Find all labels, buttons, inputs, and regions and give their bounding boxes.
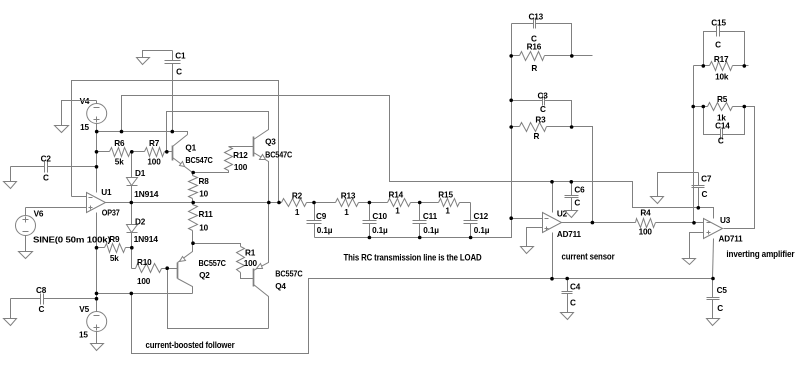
svg-text:1N914: 1N914 bbox=[134, 190, 159, 199]
node U2 V+ tap bbox=[550, 180, 554, 184]
svg-text:R: R bbox=[531, 64, 537, 73]
op-amp U1 OP37 bbox=[72, 196, 87, 198]
svg-text:R13: R13 bbox=[341, 192, 356, 201]
wire U2 feedback column bbox=[572, 127, 593, 223]
capacitor C9 0.1u bbox=[314, 203, 316, 221]
svg-text:10: 10 bbox=[199, 224, 208, 233]
svg-text:BC547C: BC547C bbox=[265, 150, 292, 159]
ground at C4 bbox=[561, 313, 574, 320]
svg-text:0.1µ: 0.1µ bbox=[372, 226, 388, 235]
svg-text:1: 1 bbox=[395, 207, 400, 216]
node R2/C9 bbox=[312, 201, 316, 205]
node Q1 emitter/R8/R12 bbox=[191, 171, 195, 175]
wire U3 output up to feedback rows bbox=[724, 107, 755, 229]
capacitor C1 bbox=[172, 51, 174, 61]
svg-text:C12: C12 bbox=[474, 212, 489, 221]
node +15 riser bbox=[120, 130, 124, 134]
op-amp U3 AD711 bbox=[704, 219, 723, 239]
capacitor C12 0.1u bbox=[470, 203, 472, 221]
svg-text:BC547C: BC547C bbox=[185, 156, 213, 165]
transistor Q4 BC557C bbox=[253, 269, 255, 287]
svg-text:R2: R2 bbox=[292, 192, 303, 201]
wire U1 output row / RC line top row bbox=[106, 202, 282, 204]
svg-text:R17: R17 bbox=[714, 55, 729, 64]
svg-text:C: C bbox=[39, 305, 45, 314]
svg-text:10k: 10k bbox=[715, 73, 729, 82]
wire U3 V- pin bbox=[713, 239, 714, 279]
capacitor C3 bbox=[512, 100, 543, 102]
resistor R13 bbox=[315, 202, 336, 204]
svg-text:R3: R3 bbox=[535, 116, 546, 125]
node -15 rail bbox=[95, 292, 99, 296]
svg-text:100: 100 bbox=[147, 158, 161, 167]
wire U1 feedback: -in column up, top line, drop to output node bbox=[72, 81, 279, 203]
svg-text:C: C bbox=[540, 105, 546, 114]
svg-text:This RC transmission line is t: This RC transmission line is the LOAD bbox=[344, 252, 483, 262]
resistor R14 bbox=[370, 202, 388, 204]
svg-text:C: C bbox=[715, 41, 721, 50]
svg-text:U1: U1 bbox=[101, 188, 112, 197]
wire Q2 base node down to Q4 collector bbox=[168, 269, 269, 329]
ground at C6 bbox=[565, 211, 578, 218]
capacitor C15 bbox=[704, 32, 717, 66]
node -15 branch down bbox=[130, 292, 134, 296]
ground at C2 bbox=[10, 167, 12, 182]
resistor R17 10k bbox=[694, 65, 710, 67]
node U3 -in bbox=[692, 221, 696, 225]
svg-text:100: 100 bbox=[137, 277, 151, 286]
svg-text:100: 100 bbox=[244, 259, 258, 268]
svg-text:C: C bbox=[176, 67, 182, 76]
capacitor C14 bbox=[704, 107, 721, 135]
node C1 rail bbox=[171, 130, 175, 134]
wire U2 +in to ground bbox=[527, 228, 543, 247]
svg-text:V4: V4 bbox=[80, 97, 90, 106]
node follower out R8/R11 bbox=[191, 201, 195, 205]
node R17 right bbox=[743, 64, 747, 68]
wire inner box Q1 base to Q3 collector bbox=[167, 112, 269, 152]
svg-text:R12: R12 bbox=[233, 151, 248, 160]
svg-text:Q2: Q2 bbox=[199, 271, 210, 280]
svg-text:C: C bbox=[574, 198, 580, 207]
svg-text:R5: R5 bbox=[717, 95, 728, 104]
node C12 bottom bbox=[469, 236, 473, 240]
node C6 top bbox=[570, 180, 574, 184]
svg-text:C14: C14 bbox=[715, 122, 730, 131]
wire U2 V- pin bbox=[552, 233, 554, 279]
resistor R3 bbox=[512, 126, 520, 128]
svg-text:C15: C15 bbox=[711, 19, 726, 28]
svg-text:0.1µ: 0.1µ bbox=[474, 226, 490, 235]
resistor R6 bbox=[97, 151, 110, 153]
svg-text:5k: 5k bbox=[115, 158, 124, 167]
svg-text:100: 100 bbox=[639, 228, 653, 237]
node C7 bottom bbox=[697, 206, 701, 210]
node C15 left bbox=[702, 64, 706, 68]
svg-text:BC557C: BC557C bbox=[199, 259, 227, 268]
ground at V6 bbox=[25, 236, 27, 252]
svg-text:C9: C9 bbox=[316, 212, 327, 221]
node R16 right bbox=[570, 54, 574, 58]
capacitor C4 bbox=[567, 279, 569, 292]
svg-text:R10: R10 bbox=[137, 258, 152, 267]
node C11 bottom bbox=[418, 236, 422, 240]
resistor R2 bbox=[282, 199, 307, 207]
svg-text:R6: R6 bbox=[114, 139, 125, 148]
svg-text:D1: D1 bbox=[135, 169, 146, 178]
svg-text:R1: R1 bbox=[245, 249, 256, 258]
voltage source V5 bbox=[87, 312, 107, 332]
svg-text:BC557C: BC557C bbox=[275, 270, 303, 279]
svg-text:C1: C1 bbox=[175, 51, 186, 60]
svg-text:C13: C13 bbox=[529, 13, 544, 22]
node U1 out / D1-D2 bbox=[130, 201, 134, 205]
svg-text:current-boosted follower: current-boosted follower bbox=[146, 340, 236, 350]
ground at V4 bbox=[62, 101, 97, 126]
svg-text:C: C bbox=[702, 190, 708, 199]
resistor R10 bbox=[132, 268, 136, 270]
capacitor C11 0.1u bbox=[419, 203, 421, 221]
node U2 V- tap bbox=[550, 277, 554, 281]
resistor R16 bbox=[512, 55, 520, 57]
svg-text:C6: C6 bbox=[574, 186, 585, 195]
transistor Q1 BC547C bbox=[172, 146, 174, 161]
capacitor C6 bbox=[571, 182, 573, 196]
node D2/R9/R10 bbox=[130, 246, 134, 250]
svg-text:C8: C8 bbox=[36, 286, 47, 295]
svg-text:C4: C4 bbox=[570, 282, 581, 291]
svg-text:R9: R9 bbox=[109, 235, 120, 244]
node C3 left bbox=[509, 99, 513, 103]
svg-text:C7: C7 bbox=[701, 174, 712, 183]
svg-text:1N914: 1N914 bbox=[134, 235, 159, 244]
node R11/Q2/R1 bbox=[191, 241, 195, 245]
node R14/C11 bbox=[418, 201, 422, 205]
node C2 right bbox=[95, 165, 99, 169]
svg-text:C: C bbox=[43, 173, 49, 182]
node R6/R7/D1 bbox=[130, 150, 134, 154]
voltage source V4 bbox=[87, 104, 107, 124]
wire U2 V+ pin bbox=[552, 182, 554, 213]
svg-text:Q4: Q4 bbox=[275, 282, 286, 291]
svg-text:C10: C10 bbox=[372, 212, 387, 221]
svg-text:R4: R4 bbox=[640, 209, 651, 218]
wire U1 V- pin down to -15 node bbox=[96, 213, 98, 312]
diode D1 1N914 bbox=[131, 152, 133, 178]
node feedback tap bbox=[277, 201, 281, 205]
svg-text:V5: V5 bbox=[79, 305, 89, 314]
node R6 left bbox=[95, 150, 99, 154]
wire -15 rail route below follower to right rail bbox=[132, 279, 713, 354]
svg-text:C: C bbox=[717, 304, 723, 313]
node R9 left bbox=[95, 246, 99, 250]
node C10 bottom bbox=[368, 236, 372, 240]
svg-text:100: 100 bbox=[234, 163, 248, 172]
wire R17 stub bbox=[745, 65, 749, 67]
node R5 left col bbox=[691, 105, 695, 109]
wire +15V rail to Q1 collector bbox=[97, 132, 188, 135]
svg-text:OP37: OP37 bbox=[102, 208, 121, 217]
svg-text:R15: R15 bbox=[438, 191, 453, 200]
transistor Q3 BC547C bbox=[253, 137, 255, 157]
node V4+ rail bbox=[95, 130, 99, 134]
svg-text:10: 10 bbox=[199, 190, 208, 199]
resistor R12 bbox=[194, 171, 229, 173]
node U2 out bbox=[591, 221, 595, 225]
resistor R7 bbox=[132, 151, 145, 153]
svg-text:R11: R11 bbox=[199, 210, 214, 219]
svg-text:1: 1 bbox=[445, 207, 450, 216]
node C4 top bbox=[565, 277, 569, 281]
svg-text:C11: C11 bbox=[423, 212, 438, 221]
svg-text:0.1µ: 0.1µ bbox=[317, 226, 333, 235]
svg-text:inverting amplifier: inverting amplifier bbox=[726, 249, 795, 259]
svg-text:R16: R16 bbox=[527, 43, 542, 52]
capacitor C10 0.1u bbox=[369, 203, 371, 221]
resistor R1 bbox=[193, 244, 241, 247]
ground at C1 bbox=[143, 51, 173, 58]
wire -15 rail left from V5 node to Q2 collector bbox=[97, 293, 193, 295]
svg-text:1: 1 bbox=[295, 208, 300, 217]
resistor R15 bbox=[420, 202, 439, 204]
voltage source V6 SINE bbox=[26, 207, 87, 209]
diode D2 1N914 bbox=[131, 203, 133, 225]
svg-text:Q3: Q3 bbox=[265, 138, 276, 147]
svg-text:15: 15 bbox=[79, 331, 88, 340]
wire U3 -in feedback left column bbox=[693, 66, 695, 223]
svg-text:1: 1 bbox=[344, 208, 349, 217]
capacitor C5 bbox=[712, 279, 714, 298]
capacitor C13 bbox=[512, 23, 534, 25]
svg-text:C: C bbox=[718, 137, 724, 146]
transistor Q2 BC557C bbox=[177, 263, 179, 279]
svg-text:C: C bbox=[570, 299, 576, 308]
node R3 right bbox=[570, 125, 574, 129]
capacitor C7 bbox=[698, 173, 700, 186]
node R16 left bbox=[509, 54, 513, 58]
wire R16 stub bbox=[572, 55, 593, 57]
ground at V5 bbox=[96, 332, 98, 344]
op-amp U2 AD711 bbox=[512, 218, 543, 220]
node R5 right bbox=[743, 105, 747, 109]
svg-text:C3: C3 bbox=[538, 92, 549, 101]
wire V+ column x96 from V4 to U1 top pin bbox=[96, 124, 98, 193]
svg-text:15: 15 bbox=[80, 123, 89, 132]
resistor R5 1k bbox=[694, 106, 708, 108]
wire +15V distribution: up from V4 node, across top, down to mid rail, jog to U3 V+ bbox=[122, 96, 714, 219]
svg-text:R: R bbox=[534, 132, 540, 141]
node Q3/Q4 emitters bbox=[267, 201, 271, 205]
node U2 -in bbox=[509, 216, 513, 220]
svg-text:D2: D2 bbox=[135, 217, 146, 226]
resistor R4 bbox=[636, 219, 656, 228]
svg-text:R14: R14 bbox=[389, 191, 404, 200]
capacitor C8 bbox=[11, 298, 41, 300]
resistor R9 bbox=[97, 247, 105, 249]
svg-text:R7: R7 bbox=[149, 139, 160, 148]
node R13/C10 bbox=[368, 201, 372, 205]
wire U2 output to R4 bbox=[562, 222, 636, 224]
node C8 right bbox=[95, 297, 99, 301]
node C14 left bbox=[702, 105, 706, 109]
svg-text:Q1: Q1 bbox=[185, 143, 196, 152]
svg-text:5k: 5k bbox=[110, 254, 119, 263]
wire D2 to R10 row bbox=[131, 248, 133, 269]
wire RC ladder bottom rail to U2 virtual ground column bbox=[315, 24, 512, 238]
capacitor C2 bbox=[11, 166, 45, 168]
svg-text:U3: U3 bbox=[720, 216, 731, 225]
svg-text:SINE(0 50m 100k): SINE(0 50m 100k) bbox=[33, 236, 111, 245]
ground at C8 bbox=[10, 299, 12, 319]
node U3 V- tap bbox=[711, 277, 715, 281]
ground near C7 supply bbox=[658, 173, 699, 197]
svg-text:0.1µ: 0.1µ bbox=[423, 226, 439, 235]
resistor R8 bbox=[192, 173, 194, 176]
node Q2 base tap bbox=[165, 266, 169, 270]
svg-text:AD711: AD711 bbox=[557, 230, 582, 239]
svg-text:C2: C2 bbox=[41, 155, 52, 164]
svg-text:V6: V6 bbox=[34, 209, 44, 218]
resistor R11 bbox=[192, 203, 194, 205]
svg-text:AD711: AD711 bbox=[719, 235, 744, 244]
svg-text:R8: R8 bbox=[199, 177, 210, 186]
svg-text:current sensor: current sensor bbox=[562, 252, 616, 262]
node R3 left bbox=[509, 125, 513, 129]
node Q1 base bbox=[165, 150, 169, 154]
ground at C5 bbox=[707, 319, 720, 326]
svg-text:C5: C5 bbox=[717, 286, 728, 295]
wire U3 +in to ground bbox=[690, 233, 704, 259]
